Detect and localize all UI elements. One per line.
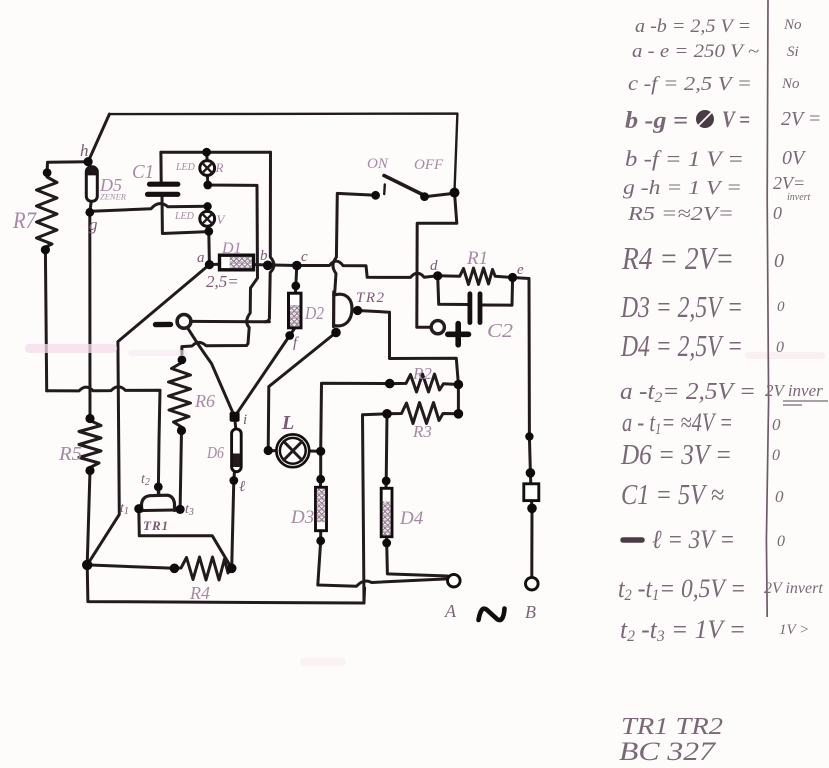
svg-text:C1: C1 (132, 161, 154, 183)
wire g right to LED V (hop over C1 tail) (92, 204, 208, 212)
node D2 top (291, 282, 300, 291)
wire f diagonal to i (235, 336, 290, 417)
svg-text:0: 0 (774, 250, 784, 272)
svg-text:c -f = 2,5 V =: c -f = 2,5 V = (628, 73, 752, 95)
svg-text:g: g (89, 215, 98, 234)
node LED R bottom (203, 181, 212, 190)
wire horizontal row g (hops over two verticals) (47, 387, 160, 496)
svg-text:0V: 0V (782, 147, 807, 169)
switch tick (383, 185, 386, 195)
node switch ON (371, 191, 380, 200)
wire OFF down to plus terminal (417, 193, 457, 328)
node R7 bottom (41, 245, 50, 254)
capacitor C2 (470, 294, 480, 323)
svg-text:t2 -t3 = 1V =: t2 -t3 = 1V = (620, 615, 746, 645)
resistor R7 (37, 173, 58, 250)
terminal B (526, 577, 539, 590)
node R5 top (85, 414, 94, 423)
wire junction to R4 (87, 565, 174, 568)
svg-text:No: No (783, 17, 802, 33)
svg-text:2V =: 2V = (781, 108, 821, 130)
node R5 bottom (85, 466, 94, 475)
svg-text:Si: Si (787, 44, 799, 60)
svg-text:1V >: 1V > (779, 622, 809, 638)
resistor R1 (438, 268, 513, 285)
svg-text:R1: R1 (466, 248, 488, 269)
node TR2 collector (353, 306, 362, 315)
svg-text:R2: R2 (412, 364, 432, 383)
svg-text:d: d (430, 258, 438, 274)
wire LED V stems (207, 206, 209, 264)
node t1 (134, 504, 143, 513)
svg-text:D6 = 3V =: D6 = 3V = (620, 440, 732, 471)
wire vertical from top rail hopping main wire down to minus wire (265, 152, 274, 322)
node top rail (202, 148, 211, 157)
svg-text:D3: D3 (290, 507, 314, 528)
transistor TR1 (137, 495, 182, 511)
svg-text:h: h (80, 141, 89, 160)
minus battery terminal (156, 315, 191, 329)
svg-text:R: R (215, 160, 224, 175)
wire TR2 emitter diagonal to lamp left (268, 333, 336, 451)
svg-text:i: i (243, 412, 247, 428)
svg-text:0: 0 (773, 203, 782, 223)
svg-text:TR2: TR2 (356, 290, 386, 306)
svg-text:B: B (525, 602, 536, 622)
diode D6 (232, 429, 242, 472)
svg-text:a - e = 250 V ~: a - e = 250 V ~ (632, 41, 759, 62)
svg-text:ℓ = 3V =: ℓ = 3V = (652, 525, 735, 554)
svg-text:D3 = 2,5V =: D3 = 2,5V = (620, 289, 743, 324)
diode D1 (220, 255, 254, 270)
wire D6 to l and down to R4 right (232, 472, 235, 569)
svg-text:C2: C2 (487, 320, 513, 342)
wire TR2 collector right and down to R2 (358, 311, 459, 385)
lamp L (276, 434, 309, 467)
wire bottom rail (87, 565, 364, 603)
svg-text:ZENER: ZENER (100, 192, 127, 202)
svg-text:TR1: TR1 (143, 518, 169, 533)
svg-text:D4 = 2,5V =: D4 = 2,5V = (620, 328, 743, 363)
note row 15 (623, 537, 642, 543)
resistor R2 (390, 374, 459, 392)
svg-text:a - t1= ≈4V =: a - t1= ≈4V = (622, 408, 733, 438)
wire R2 left to lamp right (321, 383, 390, 451)
node R3 left (382, 409, 392, 419)
svg-text:invert: invert (787, 192, 811, 203)
node h (84, 157, 93, 166)
node lamp left (264, 446, 273, 455)
svg-text:ON: ON (367, 156, 389, 172)
node R4 left (170, 564, 180, 574)
node f (285, 331, 294, 340)
node c (292, 261, 302, 271)
node D4 top (382, 477, 391, 486)
svg-text:L: L (281, 412, 294, 434)
wire R3 left down to D4 (386, 414, 387, 488)
wire C2 right to e (482, 278, 513, 306)
scan smudge marks (25, 344, 117, 353)
wire LED R bottom to right and long path down to R6 (182, 175, 258, 360)
svg-text:R4: R4 (189, 583, 210, 603)
wire minus terminal right (192, 320, 269, 323)
node R4 right (227, 564, 237, 574)
resistor R3 (387, 403, 458, 424)
svg-text:0: 0 (777, 533, 785, 550)
svg-text:2,5=: 2,5= (206, 272, 239, 291)
resistor R6 (169, 360, 191, 431)
wire e to B column (513, 278, 532, 578)
node D4 bottom (382, 539, 391, 548)
node R2 left (385, 379, 395, 389)
plus battery terminal (431, 321, 468, 345)
terminal A (448, 574, 461, 587)
svg-text:V =: V = (722, 107, 750, 132)
node R7 top (43, 168, 52, 177)
svg-text:D1: D1 (221, 240, 242, 257)
wire LED R stem top (205, 152, 209, 161)
svg-text:0: 0 (776, 339, 784, 356)
node D3 top (316, 475, 325, 484)
wire i to D6 (235, 417, 236, 429)
node B column 2 (526, 468, 536, 478)
wire top outer rail (109, 114, 457, 192)
diode D4 (381, 488, 392, 536)
svg-text:R3: R3 (412, 422, 432, 441)
wire main row a-b-c-d (two hops) (209, 261, 437, 277)
node LED V bottom (204, 227, 213, 236)
svg-text:OFF: OFF (414, 157, 444, 173)
wire a diagonal down to junction (87, 265, 209, 565)
svg-text:a -t2= 2,5V =: a -t2= 2,5V = (620, 379, 756, 406)
node b (263, 261, 273, 271)
LED V (200, 211, 215, 226)
node R2 right (454, 380, 464, 390)
zener D5 (86, 167, 97, 202)
node i (230, 412, 240, 422)
wire h diagonal (88, 114, 109, 162)
resistor R4 (174, 557, 231, 580)
wire D2 to f (290, 328, 295, 336)
wire D3 bottom to A (hop over vertical) (318, 531, 447, 586)
wire c down to D2 (296, 266, 297, 293)
svg-text:D4: D4 (399, 508, 424, 529)
switch lever (384, 176, 427, 197)
wire g down to R5 (88, 212, 91, 418)
wire t1 down right diagonal to R4 right (139, 509, 232, 569)
node g (85, 208, 94, 217)
node e (508, 273, 517, 282)
node d (433, 271, 442, 280)
svg-text:R5 =≈2V=: R5 =≈2V= (627, 203, 734, 225)
svg-text:b: b (260, 248, 268, 264)
wire lamp right stem (309, 451, 320, 486)
node junction bottom left (82, 560, 92, 570)
node switch middle (420, 192, 429, 201)
resistor R5 (79, 419, 101, 471)
node R6 bottom (177, 426, 186, 435)
fuse square on B column (524, 484, 539, 501)
wire D4 bottom to A (387, 538, 448, 579)
svg-text:b -f = 1 V =: b -f = 1 V = (625, 146, 744, 171)
wire R3 left horizontal and long vertical to bottom (363, 414, 388, 603)
node l (229, 476, 238, 485)
wire ON switch left arm down to TR2 (hop over main wire) (333, 193, 376, 291)
svg-text:A: A (444, 601, 457, 621)
node t3 (176, 505, 185, 514)
wire C1 top tail (159, 152, 162, 182)
node a (205, 260, 214, 269)
svg-text:R6: R6 (194, 391, 215, 411)
wire d down to C2 left (438, 276, 468, 305)
svg-text:2V inver: 2V inver (765, 381, 823, 400)
wire R5 to junction (87, 471, 90, 565)
node B column 1 (525, 432, 533, 440)
svg-text:R4 = 2V=: R4 = 2V= (621, 240, 734, 276)
node LED V top (203, 202, 211, 210)
wire R6 bottom to t3 (180, 431, 181, 510)
svg-text:LED: LED (174, 211, 195, 222)
svg-text:ℓ: ℓ (239, 479, 245, 495)
svg-text:e: e (517, 262, 524, 278)
wire R2 right to R3 right (457, 385, 460, 414)
svg-text:R7: R7 (12, 208, 37, 233)
svg-text:t2 -t1= 0,5V =: t2 -t1= 0,5V = (618, 574, 746, 604)
wire h to R7 (47, 162, 88, 173)
svg-text:D2: D2 (304, 303, 324, 323)
node lamp right (316, 447, 325, 456)
node switch OFF corner (450, 188, 460, 198)
svg-text:C1 = 5V ≈: C1 = 5V ≈ (621, 480, 724, 511)
wire minus diagonal to node i (188, 328, 235, 417)
diode D2 (289, 293, 302, 328)
node B column 3 (527, 504, 537, 514)
node R3 right (454, 409, 464, 419)
node TR2 emitter (331, 328, 341, 338)
divider line (766, 0, 768, 617)
capacitor C1 (148, 184, 178, 194)
svg-text:g -h = 1 V =: g -h = 1 V = (623, 177, 742, 199)
node t2 (154, 483, 163, 492)
wire R7 bottom down (45, 250, 46, 391)
wire D5 to g (90, 201, 92, 212)
svg-text:0: 0 (772, 415, 781, 434)
svg-text:R5: R5 (58, 443, 82, 465)
node D3 bottom (316, 536, 325, 545)
node R6 top (178, 356, 187, 365)
svg-text:D6: D6 (206, 443, 224, 462)
svg-text:2V invert: 2V invert (764, 580, 823, 597)
AC squiggle between A and B (479, 609, 505, 621)
wire t2 stem (157, 487, 161, 496)
wire C1 bottom tail down-right to LED V bottom (162, 197, 209, 234)
transistor TR2 (334, 292, 352, 327)
svg-text:BC 327: BC 327 (619, 737, 716, 766)
svg-text:a -b = 2,5 V =: a -b = 2,5 V = (635, 16, 751, 37)
svg-text:No: No (781, 76, 800, 92)
svg-text:a: a (197, 250, 205, 266)
svg-text:0: 0 (775, 487, 784, 506)
svg-text:c: c (301, 249, 308, 265)
svg-text:0: 0 (777, 299, 785, 315)
svg-text:LED: LED (175, 162, 196, 173)
wire h to D5 (88, 162, 90, 167)
LED R (200, 161, 215, 176)
svg-text:b -g =: b -g = (625, 108, 688, 134)
svg-text:2V=: 2V= (773, 173, 805, 193)
wire top LED rail (161, 151, 271, 154)
svg-text:0: 0 (772, 447, 780, 464)
diode D3 (316, 487, 327, 530)
